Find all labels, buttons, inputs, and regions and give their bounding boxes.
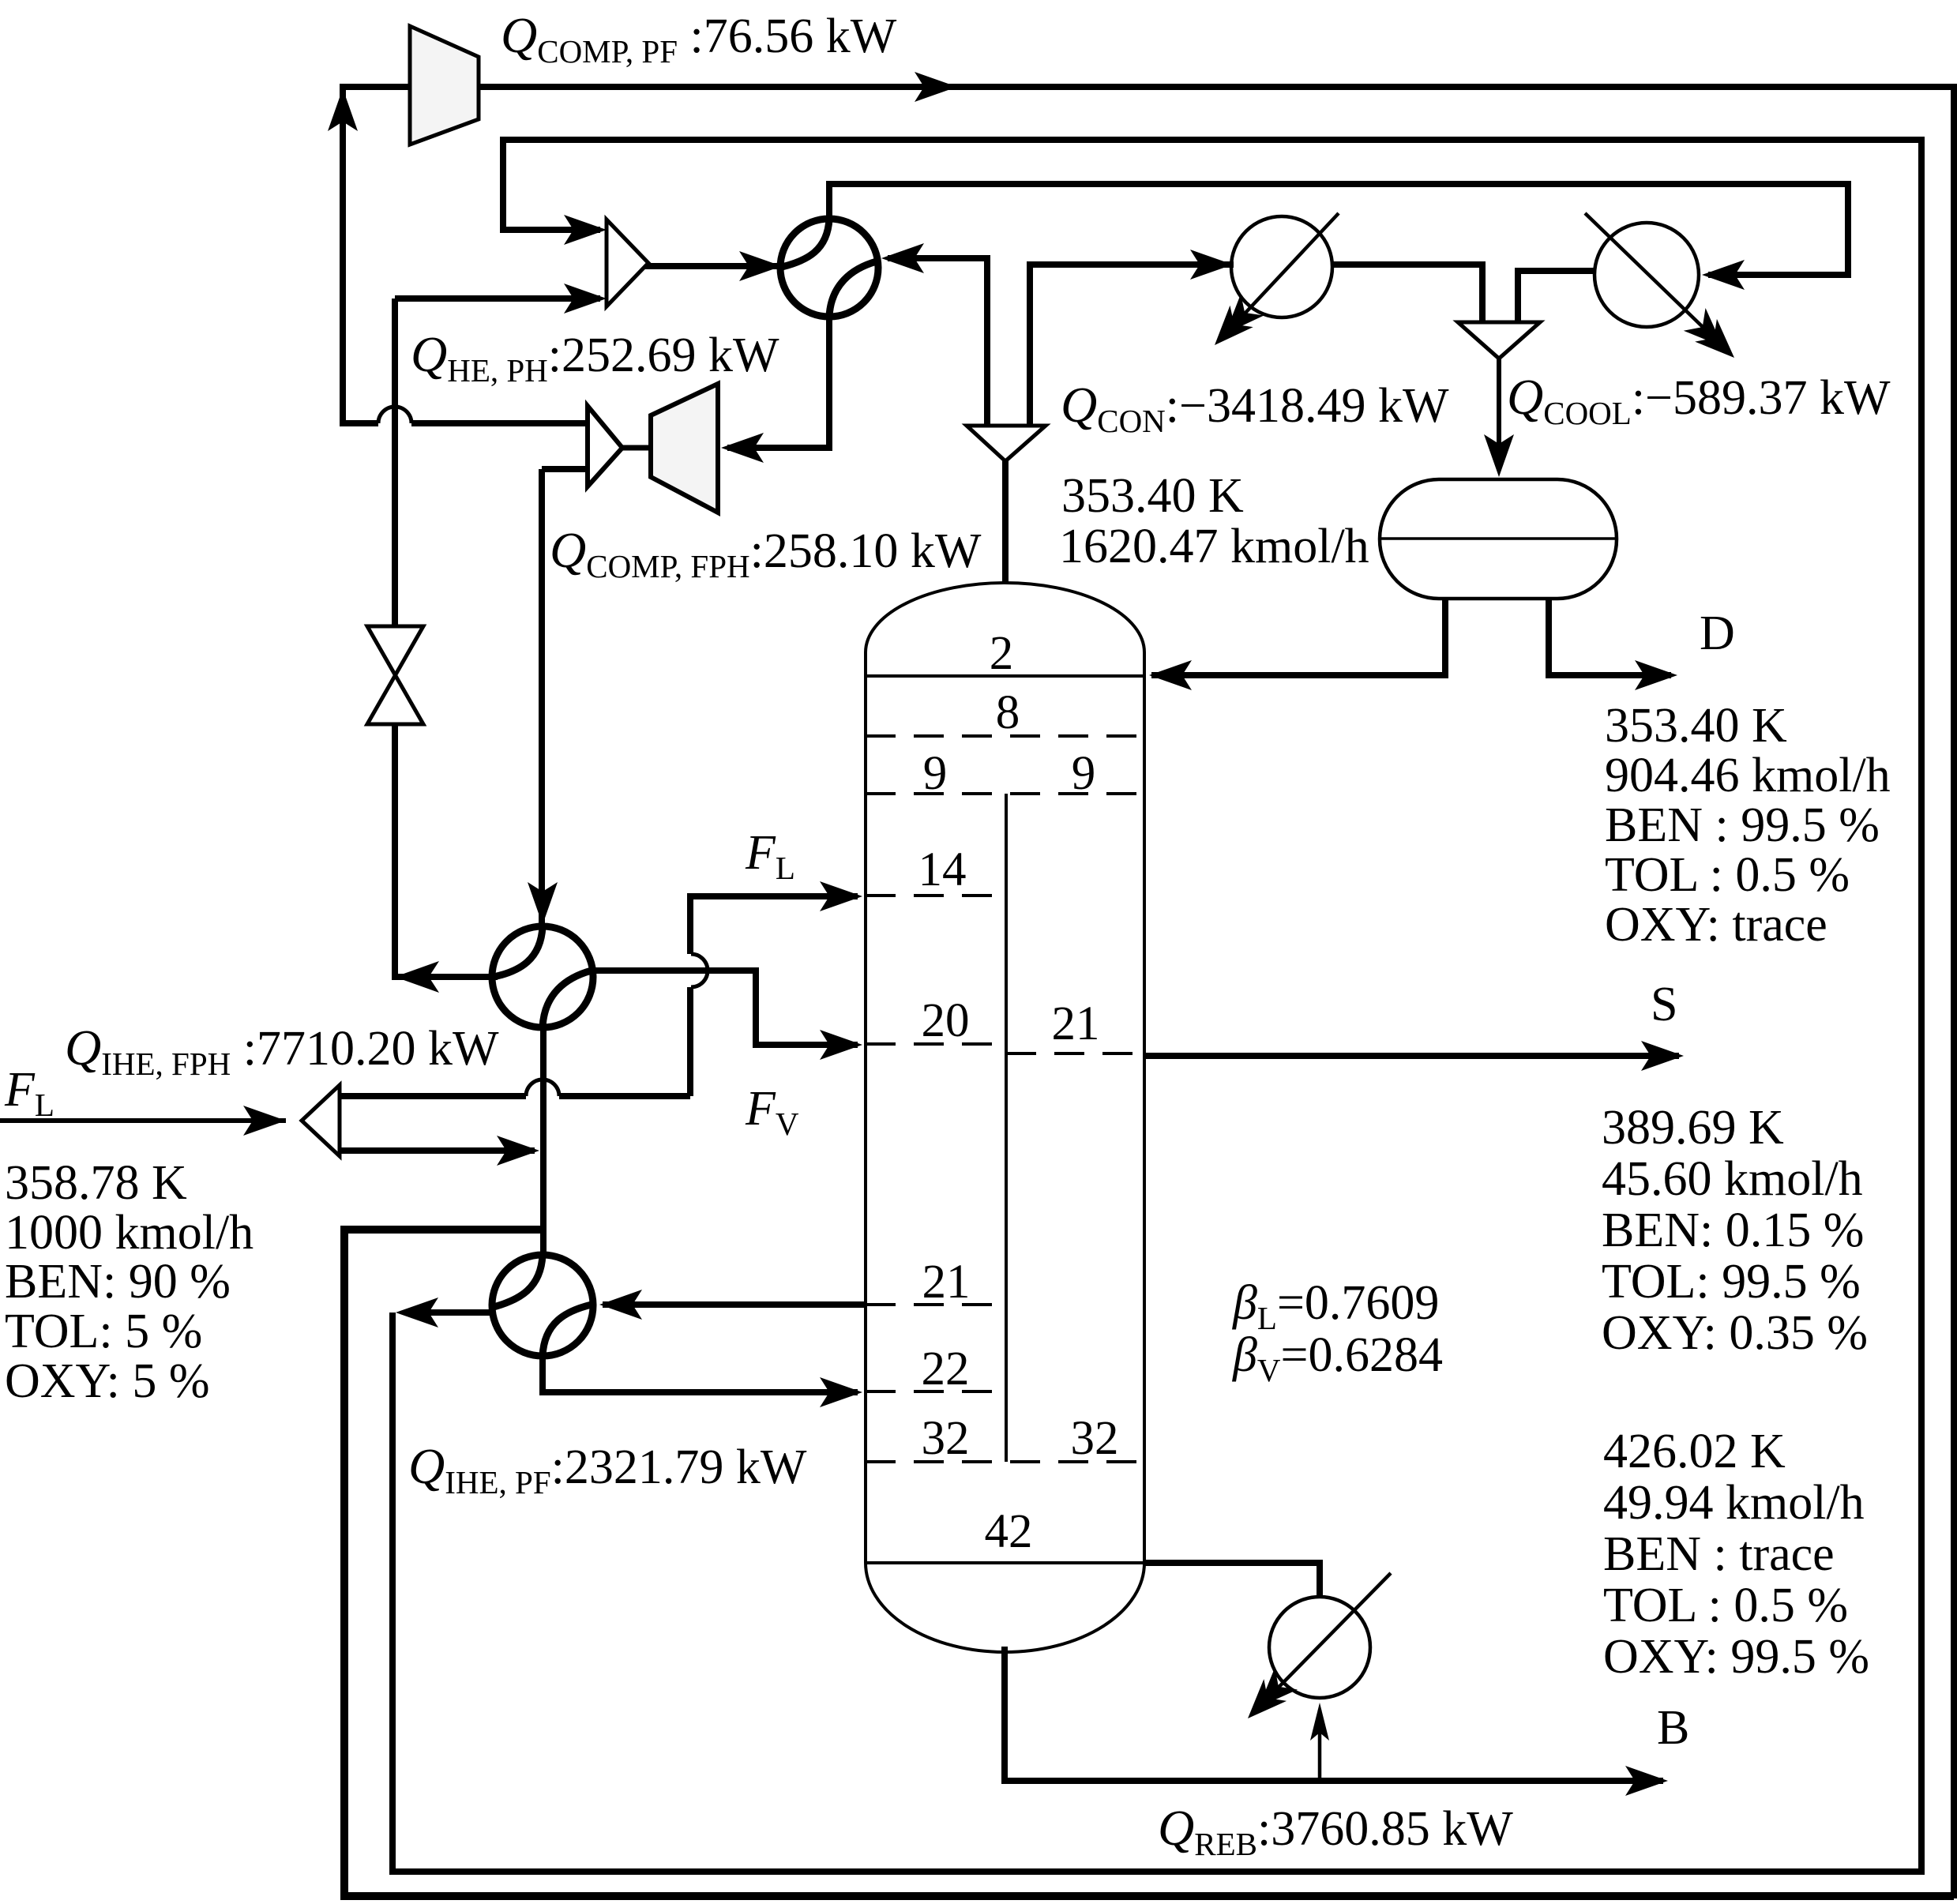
svg-text:TOL : 0.5 %: TOL : 0.5 % <box>1603 1579 1848 1632</box>
svg-text:9: 9 <box>923 747 948 800</box>
svg-text:B: B <box>1657 1701 1689 1755</box>
svg-text:BEN : 99.5 %: BEN : 99.5 % <box>1605 798 1880 852</box>
svg-text:TOL: 99.5 %: TOL: 99.5 % <box>1602 1255 1861 1309</box>
svg-text:BEN: 90 %: BEN: 90 % <box>5 1255 231 1309</box>
svg-text:353.40 K: 353.40 K <box>1061 469 1244 523</box>
svg-text:BEN: 0.15 %: BEN: 0.15 % <box>1602 1204 1864 1257</box>
svg-text:389.69 K: 389.69 K <box>1602 1101 1784 1155</box>
svg-text:904.46 kmol/h: 904.46 kmol/h <box>1605 749 1891 802</box>
svg-text:2: 2 <box>990 627 1014 680</box>
svg-text:426.02 K: 426.02 K <box>1603 1425 1786 1478</box>
svg-text:21: 21 <box>1052 997 1100 1050</box>
svg-text:49.94 kmol/h: 49.94 kmol/h <box>1603 1476 1865 1530</box>
svg-text:D: D <box>1700 607 1735 660</box>
svg-text:45.60 kmol/h: 45.60 kmol/h <box>1602 1152 1863 1206</box>
svg-text:OXY: 99.5 %: OXY: 99.5 % <box>1603 1630 1869 1684</box>
svg-text:358.78 K: 358.78 K <box>5 1156 187 1210</box>
svg-text:OXY: 5 %: OXY: 5 % <box>5 1354 210 1408</box>
svg-text:1620.47 kmol/h: 1620.47 kmol/h <box>1059 520 1369 573</box>
svg-text:20: 20 <box>922 994 970 1047</box>
svg-text:14: 14 <box>918 843 967 896</box>
svg-text:42: 42 <box>985 1505 1033 1558</box>
svg-text:32: 32 <box>922 1412 970 1465</box>
svg-text:OXY: trace: OXY: trace <box>1605 898 1827 952</box>
svg-text:353.40 K: 353.40 K <box>1605 699 1787 753</box>
svg-text:S: S <box>1651 978 1677 1031</box>
svg-text:TOL : 0.5 %: TOL : 0.5 % <box>1605 848 1850 902</box>
svg-text:BEN : trace: BEN : trace <box>1603 1527 1835 1581</box>
svg-text:32: 32 <box>1071 1412 1119 1465</box>
svg-text:TOL: 5 %: TOL: 5 % <box>5 1305 202 1358</box>
svg-text:21: 21 <box>922 1256 971 1309</box>
svg-text:22: 22 <box>922 1343 970 1395</box>
svg-text:8: 8 <box>996 686 1020 739</box>
svg-text:1000 kmol/h: 1000 kmol/h <box>5 1206 254 1260</box>
svg-text:OXY: 0.35 %: OXY: 0.35 % <box>1602 1306 1868 1360</box>
svg-text:9: 9 <box>1072 747 1096 800</box>
